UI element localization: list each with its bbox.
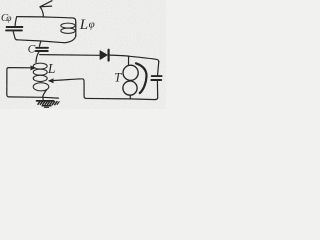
wire: junction down to phones T <box>128 56 130 65</box>
wire: node to diode anode <box>40 54 100 57</box>
wire: top wire of antenna trap loop <box>17 17 76 24</box>
wire: coil L bottom lead to ground bus <box>43 90 47 97</box>
arrowhead of left tap <box>31 66 36 70</box>
capacitor C top lead <box>40 41 41 46</box>
svg-text:φ: φ <box>89 19 95 31</box>
wire: ground bus right section <box>86 98 156 99</box>
inductor L <box>33 63 47 69</box>
svg-text:L: L <box>47 61 56 76</box>
wire: diode cathode to junction and to right edge <box>110 55 159 62</box>
wire: right tap with arrow to L, down to bus <box>51 79 86 99</box>
capacitor C-f bottom lead <box>13 32 17 40</box>
wire: left tap loop with arrow to L <box>7 68 59 99</box>
capacitor right plates <box>152 75 162 77</box>
svg-text:L: L <box>79 17 88 33</box>
headphones T top circle <box>123 65 138 80</box>
antenna arrow <box>40 7 43 17</box>
capacitor C plates <box>36 47 48 49</box>
ground symbol <box>42 98 44 101</box>
capacitor C-f top lead <box>15 17 17 26</box>
headphones T headband arc <box>136 63 147 93</box>
capacitor C bottom lead to coil L <box>36 52 39 62</box>
capacitor right bottom lead <box>156 81 158 99</box>
svg-text:C: C <box>28 44 36 56</box>
arrowhead of right tap <box>49 79 54 83</box>
wire: phones bottom lead <box>129 95 131 99</box>
svg-text:T: T <box>114 71 122 85</box>
capacitor C-f plates <box>7 26 23 28</box>
inductor L-f <box>75 23 77 37</box>
headphones T bottom circle <box>123 81 137 95</box>
wire: bottom wire of trap loop <box>17 40 64 43</box>
capacitor (blocking) right: top lead <box>158 62 159 75</box>
diode D <box>100 51 107 60</box>
svg-text:φ: φ <box>6 14 11 24</box>
